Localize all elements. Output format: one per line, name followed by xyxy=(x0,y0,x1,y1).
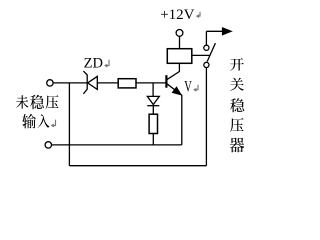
input terminal top xyxy=(47,80,53,86)
char 稳 xyxy=(30,95,44,110)
return mark after ZD xyxy=(104,60,109,68)
wire top input to zener xyxy=(53,82,87,84)
return mark after +12V xyxy=(196,12,200,18)
wire switch top up xyxy=(205,31,207,45)
wire R2 to bottom rail xyxy=(152,134,154,145)
wire relay to +12V terminal xyxy=(179,36,181,48)
return mark after V xyxy=(193,85,198,92)
wire node down to diode xyxy=(152,83,154,96)
wire outer bottom rail xyxy=(69,165,206,167)
char 压 xyxy=(46,95,59,109)
wire inner bottom rail xyxy=(52,144,182,146)
relay coil K xyxy=(167,49,192,64)
char 未 xyxy=(16,95,28,109)
wire collector to relay xyxy=(178,63,180,72)
char 开 xyxy=(230,58,244,70)
resistor R2 xyxy=(149,114,157,133)
zener diode ZD triangle xyxy=(88,76,98,89)
char 压2 xyxy=(230,118,243,132)
char 入 xyxy=(37,114,49,128)
output arrow to load xyxy=(206,30,223,32)
wire switch bottom down xyxy=(205,68,207,166)
transistor V emitter xyxy=(167,84,182,95)
svg-text:V: V xyxy=(184,79,192,96)
terminal +12V xyxy=(176,30,183,37)
svg-text:+12V: +12V xyxy=(160,7,194,23)
char 稳2 xyxy=(230,98,244,112)
transistor V collector xyxy=(167,72,180,80)
transistor V base bar xyxy=(165,75,167,88)
wire diode to R2 xyxy=(152,106,154,115)
wire emitter down xyxy=(181,95,183,145)
input terminal bottom xyxy=(45,142,51,148)
resistor R1 xyxy=(118,79,136,88)
diode D triangle xyxy=(147,96,159,104)
switch lever xyxy=(207,43,215,61)
switch contact bottom xyxy=(204,62,209,67)
char 关 xyxy=(230,78,244,91)
wire relay to switch lever xyxy=(192,54,211,56)
diode D cathode bar xyxy=(147,105,159,107)
return mark after 输入 xyxy=(51,120,56,128)
wire R1 to transistor base xyxy=(136,82,166,84)
wire left branch down xyxy=(68,83,70,166)
char 器 xyxy=(230,138,245,153)
char 输 xyxy=(22,114,36,129)
transistor V emitter arrow xyxy=(173,87,181,94)
switch contact top xyxy=(204,45,209,50)
zener diode ZD cathode bar xyxy=(83,71,87,94)
svg-text:ZD: ZD xyxy=(84,56,103,72)
wire zener to R1 xyxy=(97,82,118,84)
